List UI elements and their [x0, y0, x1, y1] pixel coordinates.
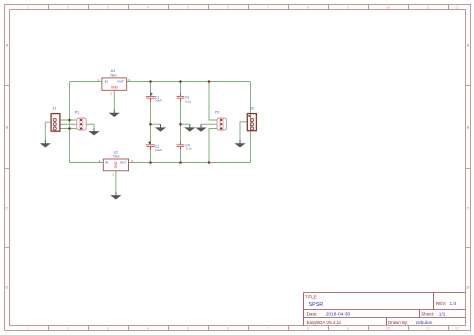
capacitor C3 — [177, 94, 185, 102]
wire P2 pin2 to ground — [201, 123, 217, 125]
svg-text:3: 3 — [107, 327, 109, 331]
wire J1 pin3 to P1 pin3 — [60, 128, 77, 130]
svg-text:10uF: 10uF — [155, 148, 162, 152]
svg-text:6: 6 — [227, 6, 229, 10]
connector P1 — [77, 118, 86, 130]
wire U1 pin2 to ground — [113, 90, 115, 109]
svg-text:7: 7 — [267, 6, 269, 10]
ground symbol at J2 left — [235, 140, 244, 147]
svg-text:C: C — [467, 206, 470, 211]
svg-text:2: 2 — [67, 6, 69, 10]
svg-text:10: 10 — [386, 6, 390, 10]
frame zone letters left — [6, 43, 9, 290]
svg-text:5: 5 — [187, 6, 189, 10]
wire top rail left segment — [70, 81, 102, 83]
capacitor C2 — [146, 141, 155, 149]
svg-text:IN: IN — [105, 80, 108, 84]
junction dot mid C3 — [179, 123, 182, 126]
wire J1 left to ground — [45, 122, 51, 140]
svg-text:SPSR: SPSR — [309, 302, 324, 308]
svg-text:11: 11 — [426, 327, 430, 331]
connector P2 — [217, 118, 226, 130]
svg-text:1: 1 — [27, 327, 29, 331]
svg-text:1.0: 1.0 — [450, 301, 457, 307]
svg-text:B: B — [467, 125, 470, 130]
ground symbol at J1 left — [41, 140, 50, 147]
svg-text:Drawn By:: Drawn By: — [388, 320, 408, 325]
svg-text:J2: J2 — [250, 106, 254, 110]
svg-text:9: 9 — [347, 327, 349, 331]
junction dot bottom rail C2 — [149, 161, 152, 164]
frame zone numbers top — [27, 6, 459, 10]
svg-text:2018-04-30: 2018-04-30 — [326, 311, 351, 317]
ground symbol at P2 mid — [196, 124, 205, 131]
svg-text:P2: P2 — [215, 110, 219, 114]
svg-text:Sheet:: Sheet: — [421, 311, 434, 316]
frame ticks right edge — [466, 86, 471, 248]
svg-text:GND: GND — [114, 160, 118, 168]
svg-text:12: 12 — [455, 327, 459, 331]
wire J2 left to ground — [240, 122, 247, 140]
ground symbol at P1 right — [89, 128, 98, 135]
ground symbol at C3 C4 mid — [185, 124, 194, 131]
svg-text:78xx: 78xx — [110, 74, 117, 78]
svg-text:D: D — [6, 285, 9, 290]
junction dot top rail C3 — [179, 80, 182, 83]
svg-text:4: 4 — [147, 327, 149, 331]
svg-text:GND: GND — [111, 86, 119, 90]
svg-text:P1: P1 — [75, 111, 79, 115]
svg-text:12: 12 — [455, 6, 459, 10]
svg-text:IN: IN — [105, 161, 108, 165]
svg-text:1/1: 1/1 — [439, 311, 446, 317]
svg-text:5: 5 — [187, 327, 189, 331]
svg-text:11: 11 — [426, 6, 430, 10]
svg-text:OUT: OUT — [120, 161, 127, 165]
svg-text:7: 7 — [267, 327, 269, 331]
wire P2 pin1 to top rail — [209, 82, 217, 121]
wire C1 C2 column — [150, 82, 152, 163]
svg-text:8: 8 — [307, 6, 309, 10]
regulator U1 — [102, 78, 127, 90]
wire C3 C4 column — [180, 82, 182, 163]
svg-text:0.1u: 0.1u — [186, 147, 192, 151]
frame ticks top edge — [49, 5, 449, 10]
wire right rail — [250, 82, 252, 163]
svg-text:OUT: OUT — [117, 80, 124, 84]
svg-text:3: 3 — [107, 6, 109, 10]
junction dot left rail pin3 — [68, 127, 71, 130]
junction dot mid C1 — [149, 123, 152, 126]
frame zone letters right — [467, 43, 470, 290]
svg-text:2: 2 — [67, 327, 69, 331]
svg-text:REV:: REV: — [436, 301, 447, 306]
capacitor C4 — [177, 142, 185, 150]
svg-text:4: 4 — [147, 6, 149, 10]
junction dot top rail C1 — [149, 80, 152, 83]
svg-text:A: A — [6, 43, 9, 48]
junction dot top rail P2 — [208, 80, 211, 83]
wire P2 pin3 to bottom rail — [209, 129, 217, 163]
wire left rail — [69, 82, 71, 163]
svg-text:U1: U1 — [111, 69, 116, 73]
wire top rail right segment — [127, 81, 251, 83]
wire mid ground stub C3 — [181, 123, 190, 125]
wire mid ground stub C1 — [151, 123, 161, 125]
svg-text:10uF: 10uF — [155, 98, 162, 102]
svg-text:1: 1 — [27, 6, 29, 10]
capacitor C1 — [146, 93, 155, 102]
svg-text:8: 8 — [307, 327, 309, 331]
svg-text:C: C — [6, 206, 9, 211]
wire J1 pin1 to P1 pin1 — [60, 119, 77, 121]
svg-text:zebulon: zebulon — [416, 320, 433, 326]
svg-text:Date:: Date: — [307, 311, 318, 316]
frame ticks bottom edge — [49, 326, 449, 331]
wire bottom rail left segment — [70, 162, 104, 164]
junction dot bottom rail P2 — [208, 161, 211, 164]
junction dot left rail pin1 — [68, 119, 71, 122]
ground symbol at U2 pin1 — [111, 192, 120, 199]
svg-text:A: A — [467, 43, 470, 48]
svg-text:0.1u: 0.1u — [185, 100, 191, 104]
svg-text:TITLE:: TITLE: — [305, 294, 318, 299]
frame ticks left edge — [5, 86, 10, 248]
svg-text:9: 9 — [347, 6, 349, 10]
junction dot bottom rail C4 — [179, 161, 182, 164]
wire J1 pin2 to P1 pin2 — [60, 123, 77, 125]
frame zone numbers bottom — [27, 327, 459, 331]
regulator U2 — [103, 159, 128, 171]
ground symbol at U1 pin2 — [110, 110, 119, 117]
title block border — [304, 293, 466, 326]
svg-text:79xx: 79xx — [113, 155, 120, 159]
svg-text:6: 6 — [227, 327, 229, 331]
ground symbol at C1 C2 mid — [156, 124, 165, 131]
wire bottom rail right segment — [129, 162, 251, 164]
svg-text:10: 10 — [386, 327, 390, 331]
connector J1 — [51, 114, 60, 132]
svg-text:D: D — [467, 285, 470, 290]
wire P1 right to ground — [86, 124, 94, 128]
svg-text:EasyEDA V5.4.11: EasyEDA V5.4.11 — [307, 320, 342, 325]
svg-text:B: B — [6, 125, 9, 130]
svg-text:J1: J1 — [53, 106, 57, 110]
wire U2 pin1 to ground — [115, 171, 117, 192]
connector J2 — [247, 114, 256, 131]
